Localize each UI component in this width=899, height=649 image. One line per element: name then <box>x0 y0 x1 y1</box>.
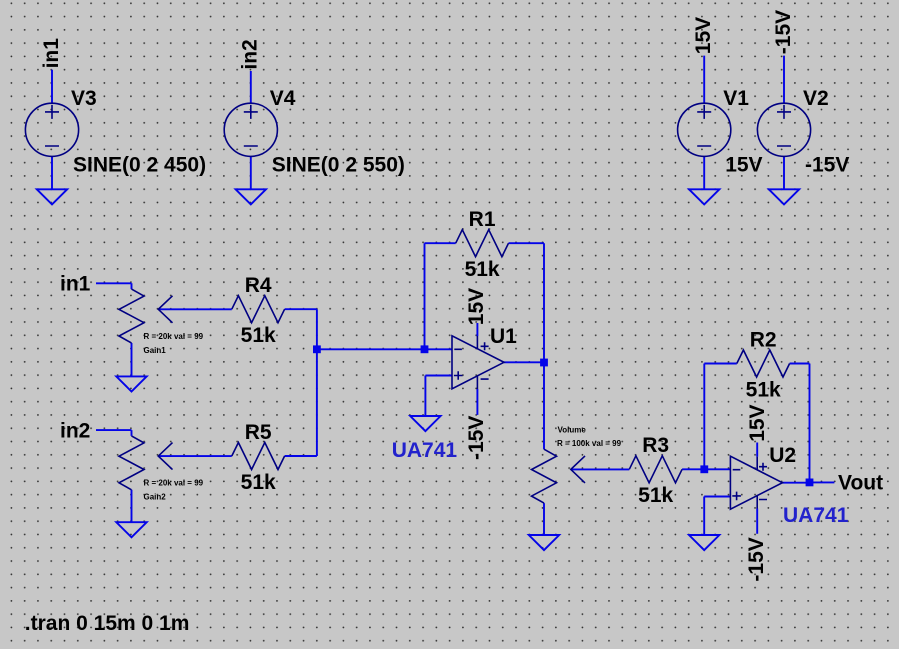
svg-text:-15V: -15V <box>745 537 768 581</box>
svg-text:V2: V2 <box>803 87 829 110</box>
svg-text:R1: R1 <box>469 208 496 231</box>
svg-text:15V: 15V <box>746 404 769 441</box>
svg-text:15V: 15V <box>465 288 488 325</box>
svg-text:15V: 15V <box>725 153 762 176</box>
svg-text:Volume: Volume <box>558 425 587 434</box>
svg-text:UA741: UA741 <box>783 504 849 527</box>
svg-text:-15V: -15V <box>805 153 849 176</box>
svg-text:Vout: Vout <box>838 472 883 495</box>
svg-text:V1: V1 <box>723 87 749 110</box>
svg-text:R = 20k val = 99: R = 20k val = 99 <box>144 478 204 487</box>
svg-text:-15V: -15V <box>465 416 488 460</box>
svg-text:SINE(0 2 550): SINE(0 2 550) <box>272 153 405 176</box>
svg-text:15V: 15V <box>692 17 715 54</box>
svg-text:R3: R3 <box>642 434 669 457</box>
svg-text:51k: 51k <box>241 324 276 347</box>
svg-text:R = 100k val = 99: R = 100k val = 99 <box>557 439 622 448</box>
svg-text:Gain2: Gain2 <box>144 493 167 502</box>
svg-text:UA741: UA741 <box>392 439 458 462</box>
svg-text:51k: 51k <box>465 258 500 281</box>
svg-text:R4: R4 <box>245 274 272 297</box>
svg-text:V4: V4 <box>270 87 296 110</box>
svg-text:Gain1: Gain1 <box>144 346 167 355</box>
svg-text:in1: in1 <box>60 273 91 296</box>
svg-text:R = 20k val = 99: R = 20k val = 99 <box>144 332 204 341</box>
svg-text:V3: V3 <box>71 87 97 110</box>
svg-text:-15V: -15V <box>772 10 795 54</box>
svg-text:51k: 51k <box>241 471 276 494</box>
svg-text:in1: in1 <box>40 38 63 69</box>
svg-text:.tran 0 15m 0 1m: .tran 0 15m 0 1m <box>25 612 190 635</box>
svg-text:51k: 51k <box>638 484 673 507</box>
svg-text:in2: in2 <box>60 419 90 442</box>
svg-text:R5: R5 <box>245 421 272 444</box>
svg-text:51k: 51k <box>746 378 781 401</box>
svg-text:U1: U1 <box>490 325 517 348</box>
svg-text:R2: R2 <box>750 328 777 351</box>
svg-text:U2: U2 <box>769 444 796 467</box>
svg-text:in2: in2 <box>239 39 262 69</box>
svg-text:SINE(0 2 450): SINE(0 2 450) <box>73 153 206 176</box>
